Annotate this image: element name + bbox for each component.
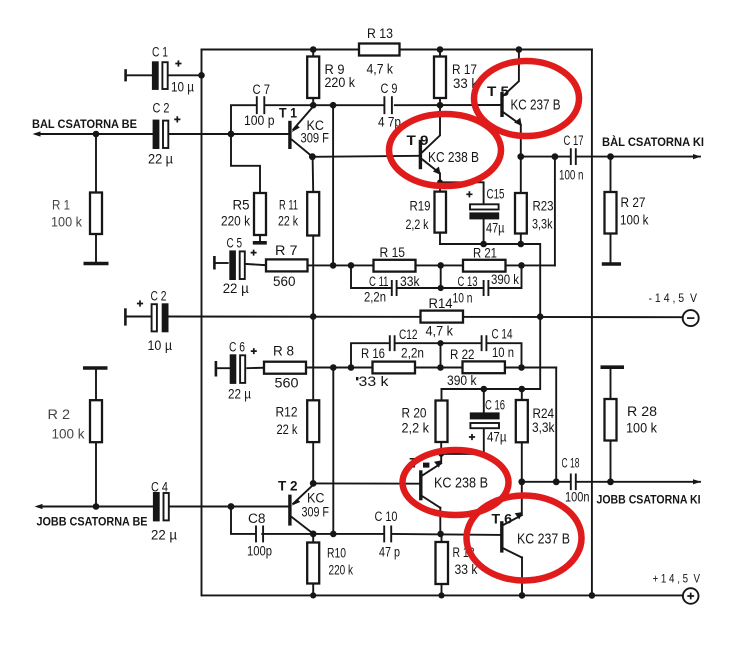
svg-text:BÀL CSATORNA KI: BÀL CSATORNA KI xyxy=(602,134,704,149)
resistor R22 390k xyxy=(463,361,505,373)
ground below R5 xyxy=(253,241,267,245)
svg-text:C 16: C 16 xyxy=(485,398,505,413)
svg-text:390 k: 390 k xyxy=(491,272,519,287)
node: T6 emitter / R24 bottom on output line xyxy=(518,478,525,485)
resistor R19 2.2k xyxy=(435,192,447,233)
wire: C11 branch down from R15 line xyxy=(351,265,391,288)
terminal arrow: BAL output xyxy=(693,154,701,159)
svg-text:R 11: R 11 xyxy=(279,198,298,213)
svg-text:R 22: R 22 xyxy=(450,347,475,362)
svg-text:22 µ: 22 µ xyxy=(151,528,177,543)
wire: R28 lead inverted ground to body xyxy=(610,369,612,399)
wire: R28 bottom lead to output line xyxy=(610,441,612,482)
svg-text:100n: 100n xyxy=(565,490,590,505)
transistor T1 KC309F (PNP) xyxy=(231,107,313,157)
node: right vertical on bottom rail xyxy=(589,592,596,599)
wire: R1 lead input line to ground xyxy=(95,134,97,263)
svg-text:220 k: 220 k xyxy=(329,563,354,578)
svg-text:3,3k: 3,3k xyxy=(532,420,555,435)
node: lower feedback tap on output line xyxy=(553,478,560,485)
svg-text:33 k: 33 k xyxy=(359,374,389,389)
svg-text:C 9: C 9 xyxy=(381,81,398,96)
wire: vertical link R8 line down to T2 collector node xyxy=(332,368,334,534)
resistor R9 220k xyxy=(307,57,319,99)
capacitor C7 100p xyxy=(257,97,265,113)
node: C12 branch on R16 line xyxy=(348,364,355,371)
svg-text:R 2: R 2 xyxy=(48,407,71,422)
node: C10 line to R8 vertical xyxy=(330,531,337,538)
svg-text:100 k: 100 k xyxy=(51,215,82,230)
wire: T10 collector vertical to C10 line node xyxy=(439,508,441,534)
capacitor C8 100p xyxy=(256,526,263,541)
svg-text:100 k: 100 k xyxy=(52,427,85,442)
terminal arrow: JOBB output xyxy=(693,479,701,484)
resistor R15 33k xyxy=(374,260,416,272)
terminal stub for C1 xyxy=(124,69,127,81)
svg-text:KC 238 B: KC 238 B xyxy=(428,150,479,166)
resistor R20 2.2k xyxy=(436,401,448,443)
wire: C5 right plate to R7 xyxy=(244,264,266,265)
svg-text:R19: R19 xyxy=(410,199,431,214)
svg-text:KC 237 B: KC 237 B xyxy=(517,532,570,548)
node: R17 top on rail xyxy=(437,46,444,53)
node: R9 top on rail xyxy=(310,46,317,53)
wire: T2 base node elbow down to C8 xyxy=(231,507,255,534)
node: T5 emitter / R23 top on output line xyxy=(517,153,524,160)
svg-text:2,2 k: 2,2 k xyxy=(406,217,429,232)
capacitor C9 47p xyxy=(384,97,392,113)
wire: C5 stub lead xyxy=(214,262,227,264)
resistor R17 33k xyxy=(434,57,446,99)
terminal circle: -14.5V xyxy=(683,310,699,326)
svg-text:4,7 k: 4,7 k xyxy=(367,62,394,77)
wire: T5 emitter vertical to output line xyxy=(520,125,522,157)
node: mid junction on lower bypass line xyxy=(437,340,443,346)
wire: R7 R15 R21 feedback line xyxy=(266,264,555,266)
svg-text:100p: 100p xyxy=(247,544,272,559)
svg-text:4,7 k: 4,7 k xyxy=(426,324,454,339)
resistor R11 22k xyxy=(307,192,319,236)
svg-text:- 1 4 , 5 V: - 1 4 , 5 V xyxy=(649,291,698,305)
wire: C16 top lead xyxy=(483,389,485,413)
wire: T9 emitter vertical to R19 xyxy=(439,173,441,191)
svg-text:100 k: 100 k xyxy=(620,213,649,228)
wire: between C12 and C14 xyxy=(396,342,480,344)
resistor R24 3.3k xyxy=(516,400,528,442)
transistor T5 KC237B (NPN) xyxy=(502,50,522,126)
node: R28 bottom on output line xyxy=(607,478,614,485)
svg-text:C 18: C 18 xyxy=(562,456,580,471)
svg-text:220 k: 220 k xyxy=(221,214,250,229)
svg-text:JOBB CSATORNA BE: JOBB CSATORNA BE xyxy=(37,515,148,529)
wire: output line to C17 xyxy=(521,156,570,158)
svg-text:309 F: 309 F xyxy=(302,505,330,520)
capacitor C18 100n xyxy=(571,474,576,489)
svg-text:47 p: 47 p xyxy=(379,545,400,560)
wire: feedback vertical up to output line xyxy=(554,157,556,266)
svg-text:R10: R10 xyxy=(327,546,346,561)
svg-text:R 27: R 27 xyxy=(621,195,646,210)
wire: middle -14.5V supply line with R14 in series xyxy=(168,316,683,319)
svg-text:KC 238 B: KC 238 B xyxy=(434,476,488,492)
svg-text:R 1: R 1 xyxy=(52,198,70,213)
node: T6 collector on rail xyxy=(519,592,526,599)
resistor R10 220k xyxy=(307,543,319,584)
node: C16 top on tops line xyxy=(481,386,488,393)
resistor R5 220k xyxy=(254,193,266,235)
capacitor C4 22u electrolytic (input JOBB) xyxy=(153,492,169,521)
svg-text:+ 1 4 , 5 V: + 1 4 , 5 V xyxy=(653,572,701,586)
wire: BAL input line right of C2 to base node xyxy=(169,133,231,135)
wire: R19 C15 R23 bottoms line to supply corner xyxy=(440,244,540,317)
node: R24 top on tops line xyxy=(519,386,526,393)
svg-text:2,2 k: 2,2 k xyxy=(402,421,430,436)
svg-text:KC: KC xyxy=(307,491,325,506)
svg-text:10 n: 10 n xyxy=(492,345,514,360)
wire: R27 top lead xyxy=(610,157,612,192)
artifact tick before R16 value xyxy=(356,377,358,380)
wire: R2 lead inverted ground to input line xyxy=(95,369,97,506)
wire: R27 bottom lead to ground xyxy=(610,234,612,264)
transistor T2 KC309F (PNP) xyxy=(231,485,313,534)
svg-text:22 µ: 22 µ xyxy=(148,152,173,167)
capacitor C16 47u electrolytic horizontal xyxy=(469,412,500,440)
node: C1 to bus junction xyxy=(198,72,205,79)
resistor R12 22k xyxy=(307,400,319,442)
wire: R8 R16 R22 lower feedback line xyxy=(264,367,556,369)
node: C16 elbow on T10 emitter column xyxy=(438,451,444,457)
svg-text:R14: R14 xyxy=(429,296,453,311)
node: R7 right junction xyxy=(330,262,337,269)
wire: mid vertical lower bypass to R16 line xyxy=(440,343,442,367)
red highlight ellipse around T6 xyxy=(467,496,582,581)
wire: middle -14.5V supply line left stub lead xyxy=(125,316,151,318)
svg-text:C8: C8 xyxy=(248,511,266,526)
terminal stub for C5 xyxy=(213,256,216,270)
svg-text:C 2: C 2 xyxy=(153,101,170,116)
svg-text:R 7: R 7 xyxy=(275,243,298,258)
ground below R1 xyxy=(84,262,109,266)
wire: R11-R12 column T1 collector to supply line xyxy=(312,157,315,317)
node: R18 bottom on rail xyxy=(438,592,444,598)
svg-text:22 µ: 22 µ xyxy=(228,387,251,402)
label T10 digit blob xyxy=(423,463,429,468)
resistor R14 4.7k xyxy=(421,311,464,323)
node: T5 collector on rail xyxy=(516,46,523,53)
capacitor C13 10n xyxy=(484,281,489,295)
wire: BAL input line left of C2 xyxy=(36,133,153,135)
svg-text:C 10: C 10 xyxy=(375,509,398,524)
svg-text:T 9: T 9 xyxy=(407,133,429,148)
svg-text:2,2n: 2,2n xyxy=(364,290,386,305)
node: R27 top on output line xyxy=(607,153,614,160)
svg-text:100 p: 100 p xyxy=(244,113,275,128)
node: R9 bottom / T1 emitter xyxy=(310,102,317,109)
capacitor C14 10n xyxy=(482,336,487,350)
capacitor C15 47u electrolytic horizontal xyxy=(466,191,499,219)
capacitor C2 10u electrolytic (supply) xyxy=(137,300,169,332)
wire: R12 column supply line to T2 emitter node xyxy=(312,317,314,484)
capacitor C12 2.2n xyxy=(390,336,395,350)
svg-text:T 5: T 5 xyxy=(487,84,510,99)
wire: C16 bottom elbow to T10 emitter column xyxy=(441,429,484,454)
svg-text:560: 560 xyxy=(275,376,299,391)
wire: T6 collector vertical to bottom rail xyxy=(521,557,523,595)
resistor R2 100k xyxy=(90,400,102,442)
svg-text:R 28: R 28 xyxy=(627,404,657,419)
wire: base node down and over to R5 top xyxy=(231,134,260,193)
node: R17 bottom / T9 collector xyxy=(437,102,444,109)
wire: T6 emitter vertical to output line xyxy=(521,482,523,514)
svg-text:T 1: T 1 xyxy=(279,106,297,121)
wire: C9 right to R17 bottom node and T5 base xyxy=(395,104,501,106)
transistor T9 KC238B (NPN) xyxy=(420,105,440,175)
wire: bottom supply rail xyxy=(202,594,683,596)
svg-text:C12: C12 xyxy=(399,327,418,342)
wire: R5 bottom lead to small ground xyxy=(259,235,261,242)
svg-text:390 k: 390 k xyxy=(447,373,477,388)
svg-text:47µ: 47µ xyxy=(487,430,507,445)
svg-text:R 8: R 8 xyxy=(273,344,294,359)
node: R10 bottom on rail xyxy=(310,592,316,598)
svg-text:2,2n: 2,2n xyxy=(401,346,424,361)
svg-text:R5: R5 xyxy=(233,198,250,213)
transistor T10 KC238B (NPN inverted) xyxy=(421,460,442,508)
svg-text:C 11: C 11 xyxy=(369,274,389,289)
transistor T6 KC237B (NPN inverted) xyxy=(502,512,523,558)
wire: lower feedback vertical down to output line xyxy=(555,368,557,482)
terminal arrow: JOBB input xyxy=(35,504,43,509)
node: T2 collector / R10 top xyxy=(310,531,317,538)
wire: R17 leads top rail to T9 collector node xyxy=(439,50,441,106)
wire: lower output line to C18 xyxy=(522,481,570,483)
svg-text:R 20: R 20 xyxy=(402,406,427,421)
node: R23 bottom on bottoms line xyxy=(518,241,525,248)
wire: JOBB input line right of C4 to base node xyxy=(170,506,231,508)
svg-text:22 k: 22 k xyxy=(278,214,298,229)
node: C15 bottom on bottoms line xyxy=(480,241,487,248)
svg-text:220 k: 220 k xyxy=(325,75,356,90)
ground above R28 (inverted) xyxy=(601,365,625,369)
svg-text:C 4: C 4 xyxy=(151,480,168,495)
wire: C12 branch up from R16 line xyxy=(351,343,389,367)
wire: top supply rail xyxy=(202,49,592,51)
node: R2 on JOBB input line xyxy=(93,503,100,510)
svg-text:C 6: C 6 xyxy=(229,340,245,355)
svg-text:3,3k: 3,3k xyxy=(532,217,553,232)
svg-text:C 2: C 2 xyxy=(151,289,167,304)
wire: C15 top elbow to emitter column xyxy=(440,182,484,204)
wire: R9 leads top rail to collector node xyxy=(312,50,314,106)
wire: lower output line right of C18 with arrow end xyxy=(577,481,700,483)
node: C11 branch on R15 line xyxy=(348,262,355,269)
svg-text:R24: R24 xyxy=(533,406,555,421)
svg-text:T 6: T 6 xyxy=(492,512,513,527)
ground below R27 xyxy=(602,262,621,266)
node: R21 right junction xyxy=(518,262,525,269)
resistor R8 560 xyxy=(264,362,306,374)
wire: C6 right plate to R8 xyxy=(247,367,264,370)
wire: C1 right lead to bus xyxy=(169,74,202,76)
svg-text:10 µ: 10 µ xyxy=(148,338,173,353)
terminal stub for C2 (10u) xyxy=(124,308,127,325)
resistor R1 100k xyxy=(90,193,102,235)
svg-text:560: 560 xyxy=(273,274,296,289)
resistor R16 33k xyxy=(373,362,416,374)
node: T2 emitter / R12 bottom xyxy=(310,480,317,487)
svg-text:KC 237 B: KC 237 B xyxy=(511,98,561,114)
svg-text:100 n: 100 n xyxy=(559,168,584,183)
wire: C10 right to R18 top node and T6 base xyxy=(392,534,500,535)
wire: mid vertical bypass line to R15 line xyxy=(440,265,442,288)
resistor R7 560 xyxy=(266,259,308,271)
wire: R20 bottom lead down to T10 emitter xyxy=(440,442,442,462)
svg-text:309 F: 309 F xyxy=(301,131,330,146)
capacitor C5 22u electrolytic xyxy=(229,250,256,280)
svg-text:47µ: 47µ xyxy=(486,221,505,236)
capacitor C6 22u electrolytic xyxy=(230,348,257,384)
svg-text:JOBB CSATORNA KI: JOBB CSATORNA KI xyxy=(597,493,701,507)
wire: R20 C16 R24 tops line to supply corner xyxy=(442,317,541,389)
wire: output line right of C17 with arrow end xyxy=(577,156,700,158)
node: mid bypass junction on R16 line xyxy=(437,364,444,371)
resistor R27 100k xyxy=(605,192,617,234)
wire: right vertical from top rail down to bottom rail xyxy=(591,50,593,596)
svg-text:R 21: R 21 xyxy=(473,246,497,261)
wire: C1 left lead from stub xyxy=(126,74,152,76)
red highlight ellipse around T5 xyxy=(474,61,579,136)
red highlight ellipse around T9 xyxy=(389,114,501,186)
svg-text:C 5: C 5 xyxy=(227,236,243,251)
node: mid junction on bypass line xyxy=(438,285,444,291)
terminal stub for C6 xyxy=(215,361,218,377)
svg-text:C 1: C 1 xyxy=(152,45,168,60)
node: T2 base junction xyxy=(228,503,235,510)
node: R1 on input line xyxy=(93,131,100,138)
wire: R19 bottom lead xyxy=(439,233,441,245)
capacitor C10 47p xyxy=(384,526,391,541)
wire: T2 emitter line to T10 base xyxy=(313,482,419,484)
capacitor C1 10u electrolytic xyxy=(152,60,182,90)
resistor R13 4.7k xyxy=(359,44,400,56)
node: R11 R12 on supply line xyxy=(310,313,317,320)
wire: R18 leads C10 line to bottom rail xyxy=(441,534,443,596)
wire: between C11 and C13 xyxy=(398,287,482,289)
resistor R28 100k xyxy=(605,399,617,441)
svg-text:C15: C15 xyxy=(487,187,505,202)
wire: left vertical bus from top rail to bottom rail xyxy=(201,50,203,596)
svg-text:R12: R12 xyxy=(276,405,298,420)
ground above R2 (inverted) xyxy=(83,366,108,370)
node: bottoms connector on supply line xyxy=(537,313,544,320)
svg-text:33k: 33k xyxy=(400,274,420,289)
resistor R21 390k xyxy=(463,260,506,272)
svg-text:R 15: R 15 xyxy=(380,245,406,260)
svg-text:10 µ: 10 µ xyxy=(171,80,194,95)
node: C15 elbow on emitter column xyxy=(437,179,443,185)
wire: R10 column collector node to bottom rail xyxy=(312,534,314,596)
capacitor C11 2.2n xyxy=(392,281,397,295)
svg-text:C 13: C 13 xyxy=(458,274,478,289)
red highlight ellipse around T10 xyxy=(403,450,509,515)
terminal circle: +14.5V xyxy=(683,588,699,604)
node: R8 right junction xyxy=(330,364,337,371)
resistor R23 3.3k xyxy=(515,193,527,234)
wire: R23 leads output dot to bottoms line xyxy=(520,157,522,244)
wire: C15 bottom lead xyxy=(483,220,485,245)
wire: vertical link T1 collector-node to R7 line xyxy=(332,105,334,265)
svg-text:R23: R23 xyxy=(533,199,554,214)
capacitor C17 100n xyxy=(571,149,576,164)
wire: C6 stub lead xyxy=(216,367,230,369)
wire: C8 to T2 collector node and C10 xyxy=(262,533,383,535)
node: mid bypass junction on R15 line xyxy=(437,262,444,269)
wire: C13 right up to R21 line xyxy=(490,265,522,288)
resistor R18 33k xyxy=(436,542,449,584)
svg-text:C 17: C 17 xyxy=(564,133,584,148)
node: T1 base junction xyxy=(228,131,235,138)
svg-text:R 16: R 16 xyxy=(361,346,385,361)
wire: base node elbow up to C7 line xyxy=(231,105,255,134)
node: collector line to R7 vertical xyxy=(330,102,337,109)
wire: R20 top lead from tops line xyxy=(441,389,443,401)
node: R22 right junction xyxy=(518,364,525,371)
svg-text:C 7: C 7 xyxy=(253,82,271,97)
wire: JOBB input line left of C4 xyxy=(38,506,153,508)
node: feedback tap on output line xyxy=(552,153,559,160)
svg-text:10 n: 10 n xyxy=(453,291,473,306)
svg-text:100 k: 100 k xyxy=(626,421,657,436)
svg-text:R 13: R 13 xyxy=(367,26,393,41)
svg-text:R 17: R 17 xyxy=(452,62,477,77)
svg-text:T 2: T 2 xyxy=(278,479,298,494)
terminal arrow: BAL input xyxy=(33,131,41,136)
node: R18 top / T10 collector xyxy=(437,531,444,538)
svg-text:C 14: C 14 xyxy=(492,327,513,342)
svg-text:BAL CSATORNA BE: BAL CSATORNA BE xyxy=(32,117,137,131)
node: T1 collector / R11 top xyxy=(309,153,316,160)
wire: C7 to R9 bottom and C9 xyxy=(266,104,383,106)
wire: C14 right down to R22 line xyxy=(488,343,522,367)
capacitor C2 22u electrolytic (input BAL) xyxy=(153,116,181,149)
wire: T1 collector node to T9 base xyxy=(312,156,419,157)
wire: R24 leads tops line to output dot xyxy=(521,389,523,482)
svg-text:22 k: 22 k xyxy=(277,422,298,437)
svg-text:22 µ: 22 µ xyxy=(223,281,249,296)
